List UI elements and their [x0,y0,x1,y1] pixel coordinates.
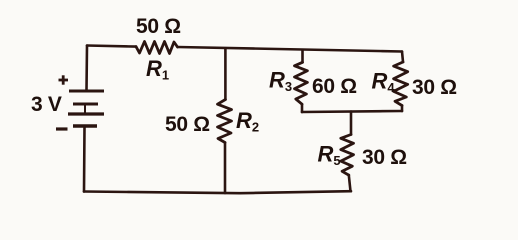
resistor R5 [341,135,354,176]
svg-text:30 Ω: 30 Ω [362,146,407,169]
battery plus sign [59,75,69,84]
resistor R1 [136,42,178,54]
wire left vertical from top-left corner down to battery [85,46,88,91]
svg-text:50 Ω: 50 Ω [165,113,210,136]
wire R2 top vertical from top wire down to R2 [224,49,227,100]
wire R4 bottom stub from R4 to parallel bottom rail [401,106,404,112]
svg-text:50 Ω: 50 Ω [136,15,181,38]
resistor R2 [218,100,232,143]
wire bottom from bottom-left corner to R5 bottom [84,191,351,193]
wire right vertical from top-right corner down to R4 [402,52,403,63]
battery minus sign [56,127,68,130]
wire top from R1 to top-right corner [178,47,403,52]
wire R5 bottom vertical from R5 to bottom wire [349,175,351,191]
wire left vertical from battery down to bottom-left corner [83,127,86,192]
resistor R4 [394,62,408,106]
svg-text:30 Ω: 30 Ω [412,76,457,99]
wire R2 bottom vertical from R2 to bottom wire [224,143,227,194]
wire R5 top vertical from parallel rail down to R5 [350,112,353,135]
wire R3 bottom stub from R3 to parallel bottom rail [301,104,304,112]
battery 3 V plates [68,91,104,126]
svg-text:60 Ω: 60 Ω [312,75,357,98]
wire R3 top stub from top wire down to R3 [301,50,304,62]
svg-text:3 V: 3 V [31,93,62,116]
wire top-left from battery top to R1 [87,46,136,47]
resistor R3 [295,62,308,104]
wire parallel bottom rail joining R3 and R4 [302,111,402,112]
